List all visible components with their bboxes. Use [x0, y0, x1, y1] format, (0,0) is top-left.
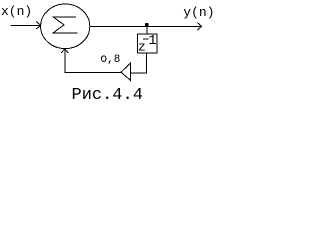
wire input arrow into adder: [10, 21, 40, 29]
svg-text:z: z: [138, 40, 146, 55]
label 0,8 : digit 0 drawn as oval (plain zero): [101, 56, 106, 62]
svg-text:y(n): y(n): [183, 5, 214, 20]
summing node U1 (adder circle): [41, 4, 90, 49]
label exponent minus: [143, 38, 149, 40]
svg-text:x(n): x(n): [1, 4, 32, 19]
wire feedback up into adder with arrow: [61, 49, 68, 73]
sigma symbol inside adder: [53, 17, 78, 33]
wire output from adder to y(n): [90, 23, 202, 31]
svg-text:1: 1: [148, 33, 156, 49]
wire gain triangle to left corner: [65, 72, 121, 74]
wire junction down to delay block: [146, 26, 148, 34]
delay block Z1 (z^-1): [137, 34, 157, 53]
svg-text:,8: ,8: [107, 54, 120, 66]
gain element triangle: [121, 63, 130, 80]
node junction dot on output wire: [145, 23, 149, 27]
wire delay block down to corner and left to gain: [131, 53, 147, 73]
svg-text:Рис.4.4: Рис.4.4: [72, 86, 143, 103]
